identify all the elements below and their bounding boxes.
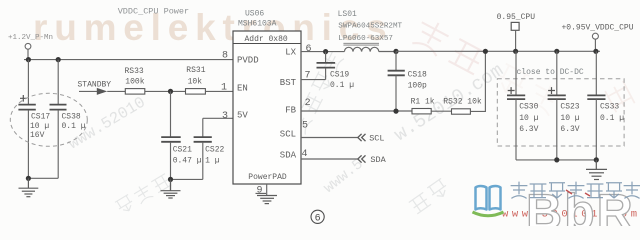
svg-text:SDA: SDA (370, 155, 386, 165)
svg-text:CS21: CS21 (173, 146, 192, 155)
svg-text:16V: 16V (30, 131, 45, 140)
svg-text:LX: LX (285, 48, 296, 58)
wire CS17 CS38 bottom connector (28, 177, 58, 179)
svg-text:SCL: SCL (369, 134, 384, 144)
svg-text:4: 4 (302, 149, 308, 160)
wire PowerPAD pin 9 stub (266, 184, 268, 195)
capacitor CS23 10u 6.3V (548, 51, 580, 160)
wire RS32 to FB sense tap (470, 51, 485, 111)
svg-text:6.3V: 6.3V (519, 125, 538, 134)
junction bus at CS33 (593, 49, 598, 54)
svg-text:10 µ: 10 µ (560, 114, 579, 123)
wire PVDD bus to pin 8 (24, 59, 233, 61)
junction rail at CS33 (594, 157, 599, 162)
node +0.95V_VDDC_CPU terminal (562, 24, 634, 52)
wire FB pin 2 line (301, 110, 412, 112)
node SDA net chevron (358, 155, 387, 165)
svg-text:Addr 0x80: Addr 0x80 (245, 35, 288, 44)
svg-text:5: 5 (302, 120, 308, 131)
page number 6 (311, 210, 324, 224)
wire CS22 to CS21 ground rail (171, 178, 203, 180)
svg-text:9: 9 (257, 185, 263, 196)
svg-text:CS23: CS23 (560, 103, 579, 112)
capacitor CS38 0.1u (50, 60, 86, 179)
junction rail at CS23 (554, 157, 559, 162)
ground below CS21 CS22 (161, 179, 181, 198)
wire output cap ground rail (516, 159, 596, 161)
wire +1.2V terminal to bus (27, 49, 29, 59)
svg-text:CS22: CS22 (205, 146, 224, 155)
wire inductor to output node (379, 51, 396, 53)
junction LX node at CS19 (323, 49, 328, 54)
svg-text:BST: BST (280, 78, 297, 88)
resistor RS32 10k (443, 97, 482, 114)
svg-text:R1 1k: R1 1k (411, 97, 435, 106)
resistor RS33 100k (125, 67, 145, 94)
svg-text:+0.95V_VDDC_CPU: +0.95V_VDDC_CPU (562, 24, 634, 33)
node +1.2V_P-Mn power terminal (8, 34, 53, 49)
junction on bus at CS38 (56, 57, 61, 62)
dashed box close to DC-DC (497, 68, 624, 146)
capacitor CS19 0.1u bootstrap (317, 52, 355, 90)
wire R1 to RS32 (431, 110, 451, 112)
svg-text:PVDD: PVDD (237, 56, 259, 66)
svg-text:0.1 µ: 0.1 µ (330, 81, 354, 90)
junction on bus at CS17 (26, 57, 31, 62)
capacitor CS22 1u (194, 118, 225, 179)
capacitor CS30 10u 6.3V (507, 51, 539, 160)
capacitor CS17 10u 16V (18, 60, 50, 179)
svg-text:100k: 100k (125, 78, 144, 87)
capacitor CS21 0.47u (161, 91, 202, 190)
svg-text:6.3V: 6.3V (560, 125, 579, 134)
svg-text:FB: FB (285, 105, 296, 115)
ground below PowerPAD (257, 196, 277, 204)
capacitor CS18 100p (388, 51, 427, 111)
svg-text:VDDC_CPU Power: VDDC_CPU Power (118, 6, 189, 16)
junction FB node at CS18 (393, 109, 398, 114)
svg-text:MSH6103A: MSH6103A (238, 20, 277, 29)
wire CS19 to BST pin 7 (301, 79, 326, 81)
svg-text:CS19: CS19 (330, 71, 349, 80)
svg-text:6: 6 (306, 44, 312, 55)
svg-text:CS30: CS30 (519, 103, 538, 112)
svg-text:0.95_CPU: 0.95_CPU (497, 13, 536, 22)
junction bus at testpoint CS30 (513, 49, 518, 54)
ground below CS17 (19, 178, 39, 196)
svg-text:RS31: RS31 (186, 66, 205, 75)
svg-text:8: 8 (222, 51, 228, 62)
svg-text:CS18: CS18 (408, 70, 427, 79)
svg-text:RS33: RS33 (125, 67, 144, 76)
dashed grouping ellipse around CS17 CS38 (10, 93, 87, 146)
wire 5V pin 3 to CS22 (203, 117, 233, 119)
svg-text:0.47 µ: 0.47 µ (173, 156, 202, 165)
svg-text:SWPA6045S2R2MT: SWPA6045S2R2MT (338, 23, 402, 31)
svg-text:EN: EN (237, 83, 248, 93)
svg-text:close to DC-DC: close to DC-DC (517, 68, 584, 77)
junction bus FB tap (483, 49, 488, 54)
svg-text:5V: 5V (237, 110, 248, 120)
svg-text:RS32 10k: RS32 10k (443, 97, 482, 106)
junction bus at CS23 (554, 49, 559, 54)
wire STANDBY arrow to RS33 (107, 90, 125, 92)
wire LX pin 6 to inductor (301, 51, 344, 53)
wire SDA pin 4 (301, 158, 358, 160)
svg-text:3: 3 (222, 111, 228, 122)
junction EN node at CS21 (168, 89, 173, 94)
wire RS33 to RS31 (145, 90, 186, 92)
node SCL net chevron (358, 134, 385, 144)
wire RS31 to EN pin 1 (205, 90, 233, 92)
junction at CS21 ground (168, 177, 173, 182)
svg-text:www.5: www.5 (321, 156, 367, 197)
svg-text:100p: 100p (408, 82, 427, 91)
node STANDBY net arrow (78, 80, 112, 95)
svg-text:0.1 µ: 0.1 µ (600, 114, 624, 123)
pin 9 number with pad line (256, 185, 267, 196)
wire SCL pin 5 (301, 137, 358, 139)
svg-text:LP6060-63X57: LP6060-63X57 (338, 35, 393, 43)
ground below output caps (586, 160, 607, 180)
svg-text:10k: 10k (188, 78, 203, 87)
svg-text:CS33: CS33 (600, 103, 619, 112)
junction output node at CS18 (393, 49, 398, 54)
node 0.95_CPU testpoint (497, 13, 536, 51)
svg-text:SCL: SCL (280, 130, 296, 140)
junction at CS17 ground (26, 176, 31, 181)
svg-text:LS01: LS01 (338, 10, 357, 19)
svg-text:10 µ: 10 µ (519, 114, 538, 123)
regulator US06 MSH6103A (233, 10, 301, 184)
resistor RS31 10k (186, 66, 206, 94)
svg-text:10 µ: 10 µ (30, 122, 49, 131)
svg-text:2: 2 (305, 98, 311, 109)
resistor R1 1k (411, 97, 435, 114)
svg-text:CS38: CS38 (62, 112, 81, 121)
svg-text:0.1 µ: 0.1 µ (62, 122, 86, 131)
svg-text:1: 1 (221, 83, 227, 94)
svg-text:US06: US06 (245, 10, 264, 19)
svg-text:1 µ: 1 µ (205, 156, 220, 165)
svg-text:+1.2V_P-Mn: +1.2V_P-Mn (8, 34, 53, 42)
svg-text:6: 6 (315, 214, 321, 225)
svg-text:STANDBY: STANDBY (78, 80, 112, 89)
svg-text:PowerPAD: PowerPAD (248, 173, 287, 182)
wire output bus to +0.95V terminal (396, 50, 600, 52)
svg-text:CS17: CS17 (31, 112, 50, 121)
capacitor CS33 0.1u (587, 51, 624, 160)
svg-text:SDA: SDA (280, 151, 297, 161)
inductor LS01 SWPA6045S2R2MT LP6060-63X57 (338, 10, 403, 52)
